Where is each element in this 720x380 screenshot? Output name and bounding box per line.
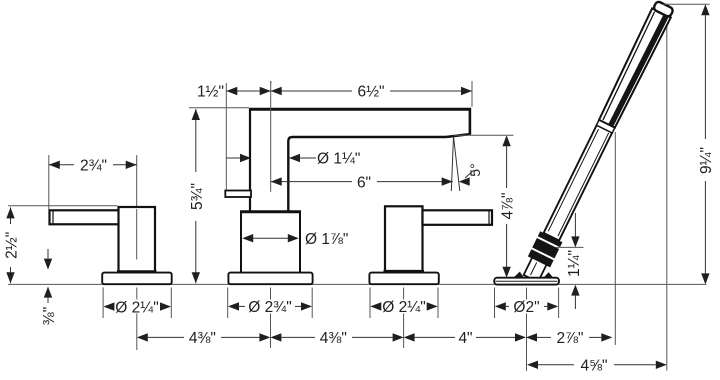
svg-text:4⅝": 4⅝" <box>580 358 607 375</box>
holder ring 3 <box>538 231 563 247</box>
svg-text:Ø 2¾": Ø 2¾" <box>248 299 291 316</box>
svg-text:5°: 5° <box>467 163 483 176</box>
dimension 2-7/8in <box>526 330 612 347</box>
svg-text:1¼": 1¼" <box>566 250 583 277</box>
wand connector <box>524 257 547 282</box>
spray head <box>598 8 671 128</box>
svg-text:⅜": ⅜" <box>41 307 58 325</box>
holder ring 2 <box>532 238 559 258</box>
svg-text:4⅜": 4⅜" <box>320 330 347 347</box>
diverter tab <box>225 191 251 198</box>
grip right inner line <box>558 133 609 236</box>
spout body fill <box>250 108 471 212</box>
svg-text:Ø 2¼": Ø 2¼" <box>382 299 425 316</box>
dimension 4-3/8in (second) <box>270 330 403 347</box>
svg-text:6½": 6½" <box>357 83 384 100</box>
svg-text:2⅞": 2⅞" <box>556 330 583 347</box>
svg-text:4": 4" <box>458 330 472 347</box>
holder base wedge right <box>544 272 554 277</box>
spout right edge <box>469 108 472 134</box>
wand end cap <box>653 1 674 18</box>
grip inner line <box>548 129 598 231</box>
dimension 1-1/4in (rotated, handshower) <box>556 213 584 309</box>
spray-face reference line <box>614 132 616 345</box>
handle 2 body bottom edge <box>384 270 425 273</box>
handle 1 centerline <box>136 155 138 350</box>
spout underside tip slope <box>446 134 471 137</box>
dimension 2-1/2in (rotated) <box>4 206 118 283</box>
svg-text:9¼": 9¼" <box>698 147 715 174</box>
handle 1 lever <box>50 210 120 224</box>
dimension 4-7/8in (rotated) <box>454 135 517 277</box>
handle 2 centerline <box>403 288 405 349</box>
spray head dark band <box>608 14 669 128</box>
handle 2 lever <box>423 210 493 225</box>
dimension 4-5/8in <box>527 358 667 375</box>
handshower escutcheon <box>494 278 559 285</box>
handshower centerline <box>526 288 528 372</box>
spout cartridge block <box>240 212 301 273</box>
dimension 4-3/8in (first) <box>137 330 271 347</box>
spout underside <box>288 137 446 212</box>
dimension diam 1-7/8in <box>242 231 348 248</box>
holder ring 1 <box>528 249 554 267</box>
wand grip <box>544 125 613 241</box>
spout centerline <box>270 288 272 349</box>
dimension diam 2-3/4in (spout) <box>228 288 313 319</box>
deck line <box>8 283 707 285</box>
connector axis line <box>531 262 537 275</box>
handle 2 escutcheon <box>369 273 438 285</box>
spout column left edge <box>249 108 251 212</box>
spout top edge <box>250 108 471 111</box>
svg-text:2¾": 2¾" <box>80 158 107 175</box>
dimension diam 1-1/4in <box>226 151 360 168</box>
dimension 5-3/4in (rotated) <box>189 108 249 283</box>
dimension 6-1/2in <box>271 81 472 107</box>
dimension diam 2-1/4in (handle 1) <box>103 288 171 319</box>
spout escutcheon <box>228 273 312 285</box>
svg-text:Ø 2¼": Ø 2¼" <box>115 299 158 316</box>
svg-text:Ø 1¼": Ø 1¼" <box>317 151 360 168</box>
svg-text:1½": 1½" <box>197 83 224 100</box>
handle 1 escutcheon <box>102 273 172 285</box>
dimension diam 2-1/4in (handle 2) <box>370 288 438 319</box>
dimension 1-1/2in <box>197 81 271 100</box>
svg-text:2½": 2½" <box>4 232 21 259</box>
dimension 9-1/4in (rotated) <box>663 4 715 284</box>
holder base wedge left <box>514 272 524 278</box>
handle 2 body <box>385 206 423 271</box>
dimension diam 2in (handshower) <box>495 288 559 319</box>
handle 1 centerline inner <box>136 209 138 260</box>
extension line A (1.5in left) <box>225 83 227 190</box>
spray head inner line <box>602 12 656 120</box>
handshower wand <box>520 0 677 284</box>
dimension 3/8in (rotated) <box>41 249 58 325</box>
svg-text:Ø 1⅞": Ø 1⅞" <box>305 231 348 248</box>
head joint band <box>596 120 614 133</box>
svg-text:Ø2": Ø2" <box>513 299 539 316</box>
handle 1 body <box>117 207 157 272</box>
dimension 2-3/4in <box>49 155 137 210</box>
dimension 4in <box>404 330 526 347</box>
svg-text:6": 6" <box>357 174 371 191</box>
spout centerline upper <box>270 81 272 192</box>
dimension 6in <box>271 174 453 191</box>
svg-text:4⅜": 4⅜" <box>189 330 216 347</box>
wand-tip reference line <box>666 11 668 371</box>
5 degree wedge <box>451 137 483 192</box>
svg-text:4⅞": 4⅞" <box>500 192 517 219</box>
svg-text:5¾": 5¾" <box>189 183 206 210</box>
